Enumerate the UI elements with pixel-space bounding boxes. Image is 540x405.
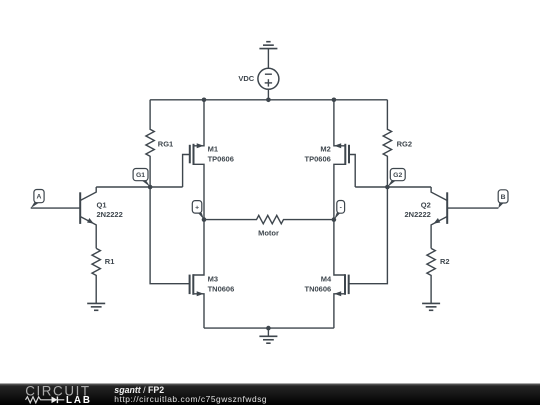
logo diode symbol <box>52 397 65 404</box>
ground (below R2) <box>422 303 440 310</box>
junction dot M1 source-rail <box>202 98 207 103</box>
resistor R2 <box>427 248 450 303</box>
svg-text:-: - <box>340 204 342 211</box>
svg-text:LAB: LAB <box>66 395 92 405</box>
svg-text:TP0606: TP0606 <box>305 154 331 163</box>
mosfet M4 (TN0606 NMOS) <box>305 220 349 329</box>
junction dot bottom-ground <box>266 326 271 331</box>
svg-text:TP0606: TP0606 <box>208 154 234 163</box>
wire G2 down to M4 gate <box>349 187 388 284</box>
wire G2 horizontal <box>355 186 431 188</box>
wire G1 horizontal <box>96 186 182 188</box>
svg-text:RG2: RG2 <box>397 139 412 148</box>
ground (top, above VDC) <box>259 42 277 69</box>
npn transistor Q1 (2N2222) <box>80 187 123 248</box>
svg-text:M3: M3 <box>208 275 218 284</box>
svg-text:Q1: Q1 <box>97 201 107 210</box>
FOOTER BAR <box>0 383 540 405</box>
svg-text:M4: M4 <box>321 275 332 284</box>
svg-text:TN0606: TN0606 <box>208 285 235 294</box>
wire A to Q1 base <box>31 207 80 209</box>
svg-text:2N2222: 2N2222 <box>97 210 123 219</box>
resistor RG1 <box>146 100 173 187</box>
svg-text:B: B <box>501 194 506 201</box>
resistor R1 <box>92 248 114 303</box>
voltage source VDC <box>238 68 279 89</box>
junction dot node plus <box>202 217 207 222</box>
svg-text:Q2: Q2 <box>421 201 431 210</box>
logo CIRCUIT text <box>25 383 91 398</box>
svg-text:2N2222: 2N2222 <box>405 210 431 219</box>
junction dot node G1 <box>148 185 153 190</box>
svg-text:TN0606: TN0606 <box>305 285 332 294</box>
svg-text:M2: M2 <box>320 145 330 154</box>
svg-text:G1: G1 <box>136 172 145 179</box>
mosfet M3 (TN0606 NMOS) <box>190 220 235 329</box>
wire G1 down to M3 gate <box>150 187 190 284</box>
junction dot VDC-rail <box>266 98 271 103</box>
junction dot node minus <box>332 217 337 222</box>
svg-text:A: A <box>37 194 42 201</box>
wire Q2 base to B <box>447 207 498 209</box>
junction dot M2 source-rail <box>332 98 337 103</box>
logo LAB text <box>66 395 92 405</box>
ground (bottom center) <box>259 328 277 343</box>
flag G1 <box>133 169 150 188</box>
footer url <box>114 394 267 404</box>
motor M (resistor symbol) <box>204 215 334 237</box>
mosfet M1 (TP0606 PMOS) <box>183 100 234 220</box>
svg-text:Motor: Motor <box>258 228 279 237</box>
ground (below R1) <box>87 303 105 310</box>
svg-text:G2: G2 <box>393 172 402 179</box>
flag A <box>31 190 44 209</box>
footer title sgantt / FP2 <box>114 385 164 395</box>
mosfet M2 (TP0606 PMOS) <box>305 100 356 220</box>
junction dot node G2 <box>385 185 390 190</box>
svg-text:RG1: RG1 <box>158 139 173 148</box>
svg-text:http://circuitlab.com/c75gwszn: http://circuitlab.com/c75gwsznfwdsg <box>114 394 267 404</box>
svg-text:R1: R1 <box>105 257 115 266</box>
wire bottom rail <box>204 327 334 329</box>
flag plus <box>192 201 204 220</box>
resistor RG2 <box>383 100 412 187</box>
flag G2 <box>387 169 405 188</box>
wire top rail <box>150 99 387 101</box>
flag minus <box>334 201 344 220</box>
logo resistor zigzag <box>26 397 52 403</box>
svg-text:+: + <box>195 204 199 211</box>
svg-text:R2: R2 <box>440 257 450 266</box>
svg-text:VDC: VDC <box>238 74 254 83</box>
flag B <box>498 190 508 208</box>
npn transistor Q2 (2N2222) <box>405 187 448 248</box>
wire VDC bottom stub <box>267 89 269 100</box>
svg-text:M1: M1 <box>208 145 218 154</box>
